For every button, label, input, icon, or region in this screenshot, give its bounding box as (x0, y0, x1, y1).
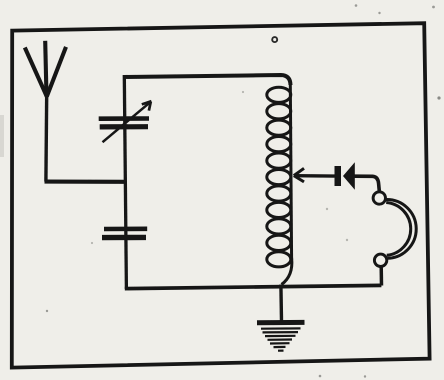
antenna A1 (25, 41, 66, 97)
wire tank left leg (124, 75, 126, 289)
small circle mark (272, 37, 277, 42)
capacitor C2 fixed, bottom plate (102, 235, 146, 241)
inductor L1 coil (267, 83, 292, 285)
diode D1 detector (335, 162, 380, 192)
wire tank top (124, 75, 290, 85)
wire antenna lead down (44, 94, 48, 182)
headphones P1 (373, 192, 416, 286)
tap arrow into coil (294, 168, 335, 182)
capacitor C1 variable, arrow (103, 101, 152, 142)
ground symbol (257, 322, 305, 350)
wire tank bottom (125, 285, 382, 288)
capacitor C1 variable, bottom plate (100, 124, 148, 129)
capacitor C1 variable, top plate (99, 116, 149, 121)
wire ground stem (279, 285, 283, 322)
wire antenna to tank junction (45, 180, 127, 184)
capacitor C2 fixed, top plate (104, 227, 147, 232)
